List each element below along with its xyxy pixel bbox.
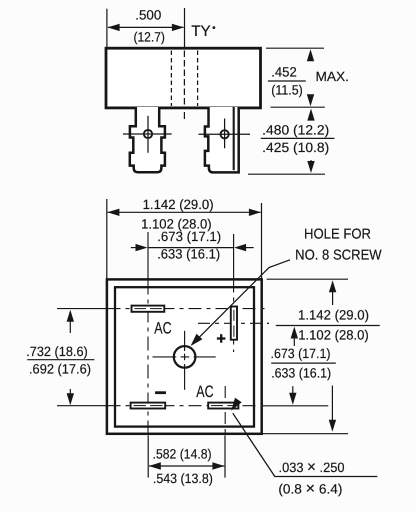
svg-text:HOLE FOR: HOLE FOR — [304, 226, 371, 242]
svg-text:.033 × .250: .033 × .250 — [279, 459, 345, 476]
svg-text:1.142 (29.0): 1.142 (29.0) — [143, 197, 214, 212]
svg-text:.452: .452 — [271, 64, 297, 79]
svg-text:.480 (12.2): .480 (12.2) — [262, 123, 329, 138]
svg-text:NO. 8 SCREW: NO. 8 SCREW — [295, 247, 382, 263]
svg-text:MAX.: MAX. — [316, 69, 350, 84]
svg-text:(12.7): (12.7) — [133, 30, 165, 45]
svg-text:.425 (10.8): .425 (10.8) — [262, 140, 329, 155]
svg-text:TY: TY — [191, 23, 211, 40]
svg-text:.673 (17.1): .673 (17.1) — [157, 229, 221, 244]
svg-text:.633 (16.1): .633 (16.1) — [271, 366, 331, 381]
svg-text:.673 (17.1): .673 (17.1) — [271, 346, 331, 361]
svg-text:.500: .500 — [135, 8, 161, 23]
svg-text:(11.5): (11.5) — [271, 82, 303, 97]
svg-text:.582 (14.8): .582 (14.8) — [153, 446, 212, 461]
svg-text:.633 (16.1): .633 (16.1) — [157, 247, 220, 262]
svg-text:1.102 (28.0): 1.102 (28.0) — [298, 327, 369, 342]
svg-text:.732 (18.6): .732 (18.6) — [26, 344, 88, 359]
svg-text:(0.8 × 6.4): (0.8 × 6.4) — [278, 480, 342, 497]
svg-text:.543 (13.8): .543 (13.8) — [153, 471, 213, 486]
svg-text:AC: AC — [154, 319, 171, 337]
svg-text:1.142 (29.0): 1.142 (29.0) — [298, 307, 369, 322]
svg-text:AC: AC — [196, 383, 213, 401]
svg-text:.692 (17.6): .692 (17.6) — [29, 362, 91, 377]
